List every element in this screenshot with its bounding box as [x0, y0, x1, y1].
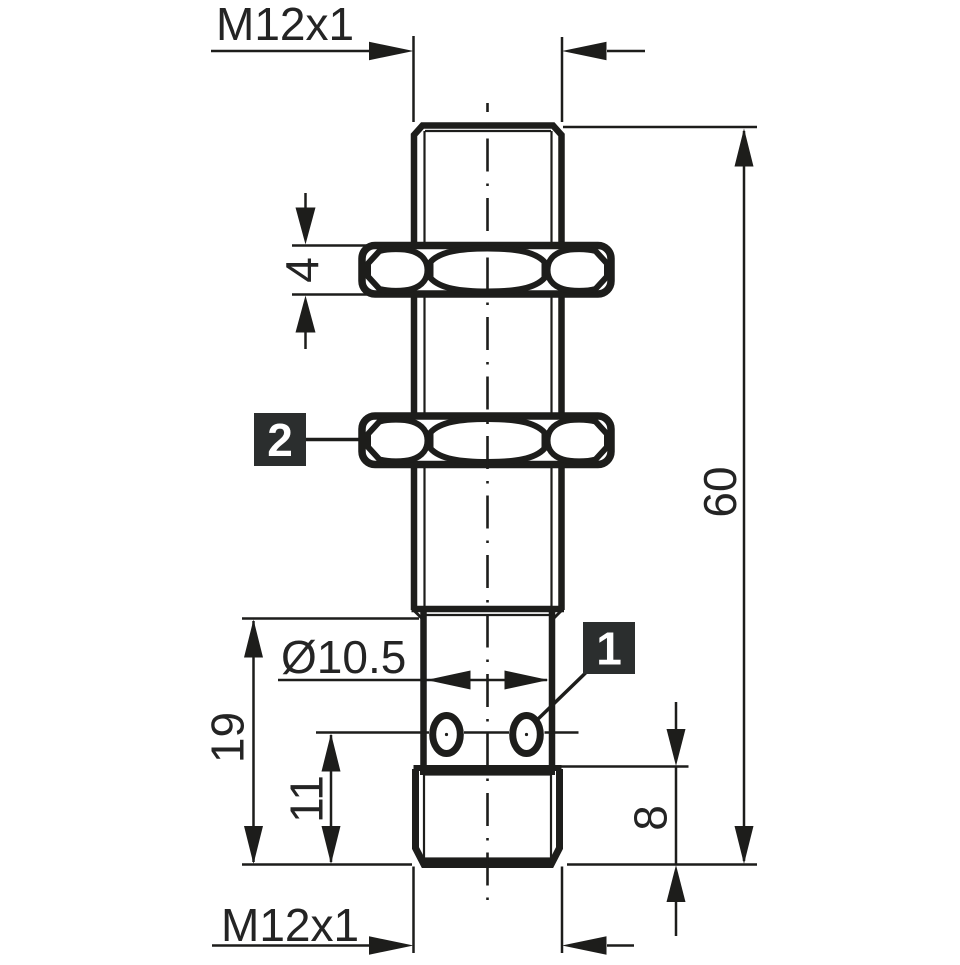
connector outer profile — [416, 769, 560, 865]
LED window right — [513, 716, 541, 754]
connector inner thread rect — [424, 775, 551, 859]
label 2 leader — [305, 438, 361, 442]
dimension M12x1 bottom: line and extensions — [212, 867, 634, 954]
LED window left — [433, 716, 461, 754]
dimension 4 arrows — [296, 208, 316, 333]
connector top thread band — [420, 770, 555, 775]
thread bottom chamfer left — [415, 611, 424, 620]
dimension 60: extension lines — [563, 127, 757, 865]
smooth body wall right — [549, 612, 556, 766]
svg-text:M12x1: M12x1 — [216, 0, 354, 50]
smooth body wall left — [420, 612, 427, 766]
dimension 60 arrows — [735, 129, 754, 865]
thread barrel top section outer profile — [414, 126, 562, 611]
dimension Dia 10.5 arrows — [427, 671, 549, 690]
dimension M12x1 top: line and extension — [211, 36, 645, 122]
thread bottom edge — [412, 606, 565, 613]
svg-text:Ø10.5: Ø10.5 — [281, 631, 406, 683]
LED centre dot left — [445, 733, 448, 736]
hex nut 1 (lower nut, item 2) — [362, 416, 611, 465]
thread bottom chamfer right — [552, 611, 561, 620]
dimension 11 arrows — [322, 734, 341, 865]
svg-text:11: 11 — [281, 775, 333, 823]
centre line (dash-dot) — [486, 103, 489, 901]
svg-text:2: 2 — [267, 414, 293, 466]
dimension 8 arrows — [667, 729, 686, 902]
thread inner diameter line right — [550, 131, 552, 608]
svg-text:M12x1: M12x1 — [221, 899, 359, 951]
hex nut 2 (upper nut) — [362, 246, 611, 295]
svg-text:19: 19 — [202, 712, 254, 763]
dimension 19 arrows — [244, 620, 263, 865]
dimension Dia 10.5: line — [278, 679, 547, 682]
thread barrel inner top chamfer line — [425, 130, 551, 132]
svg-text:60: 60 — [694, 466, 746, 517]
label 2 box — [254, 413, 306, 466]
svg-text:1: 1 — [596, 623, 622, 675]
label 1 leader — [537, 673, 587, 721]
label 1 box — [583, 622, 635, 674]
LED centre dot right — [525, 733, 528, 736]
dimension 4: extension lines — [292, 193, 370, 349]
svg-text:8: 8 — [625, 805, 677, 831]
dimension M12x1 bottom arrows — [369, 936, 607, 954]
svg-text:4: 4 — [276, 257, 328, 283]
connector step top edge — [414, 765, 562, 771]
thread inner diameter line left — [423, 131, 425, 608]
dimension 8: extension and stubs — [561, 702, 689, 936]
dimension 19: extension and line — [242, 619, 419, 865]
dimension M12x1 top arrows — [369, 42, 607, 60]
dimension 11: extension segments through LED centres — [316, 733, 579, 863]
connector bottom thread band — [424, 858, 551, 863]
thread bottom inner line — [425, 614, 551, 616]
